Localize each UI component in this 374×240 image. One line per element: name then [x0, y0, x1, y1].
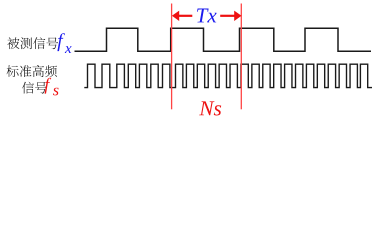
node: right gate boundary line (red): [240, 4, 242, 110]
label: signal text (信号): [22, 82, 47, 94]
label Tx: blue italic gate-time: [197, 9, 217, 23]
wire: fx square waveform: [75, 28, 372, 51]
label: measured-signal text (被测信号): [7, 37, 58, 49]
label fs: red italic f: [45, 78, 52, 94]
label fx: blue subscript x: [65, 46, 72, 53]
wire: fs high-frequency pulse train: [84, 64, 372, 87]
dimension arrow: right (points to right gate line): [220, 15, 234, 17]
label fx: blue italic f: [57, 33, 65, 51]
dimension arrow: left (points to left gate line): [179, 15, 193, 17]
label fs: red subscript s: [53, 88, 59, 96]
label Ns: red italic count: [199, 101, 221, 115]
label: standard high-frequency text (标准高频): [7, 65, 58, 77]
node: left gate boundary line (red): [171, 4, 173, 110]
